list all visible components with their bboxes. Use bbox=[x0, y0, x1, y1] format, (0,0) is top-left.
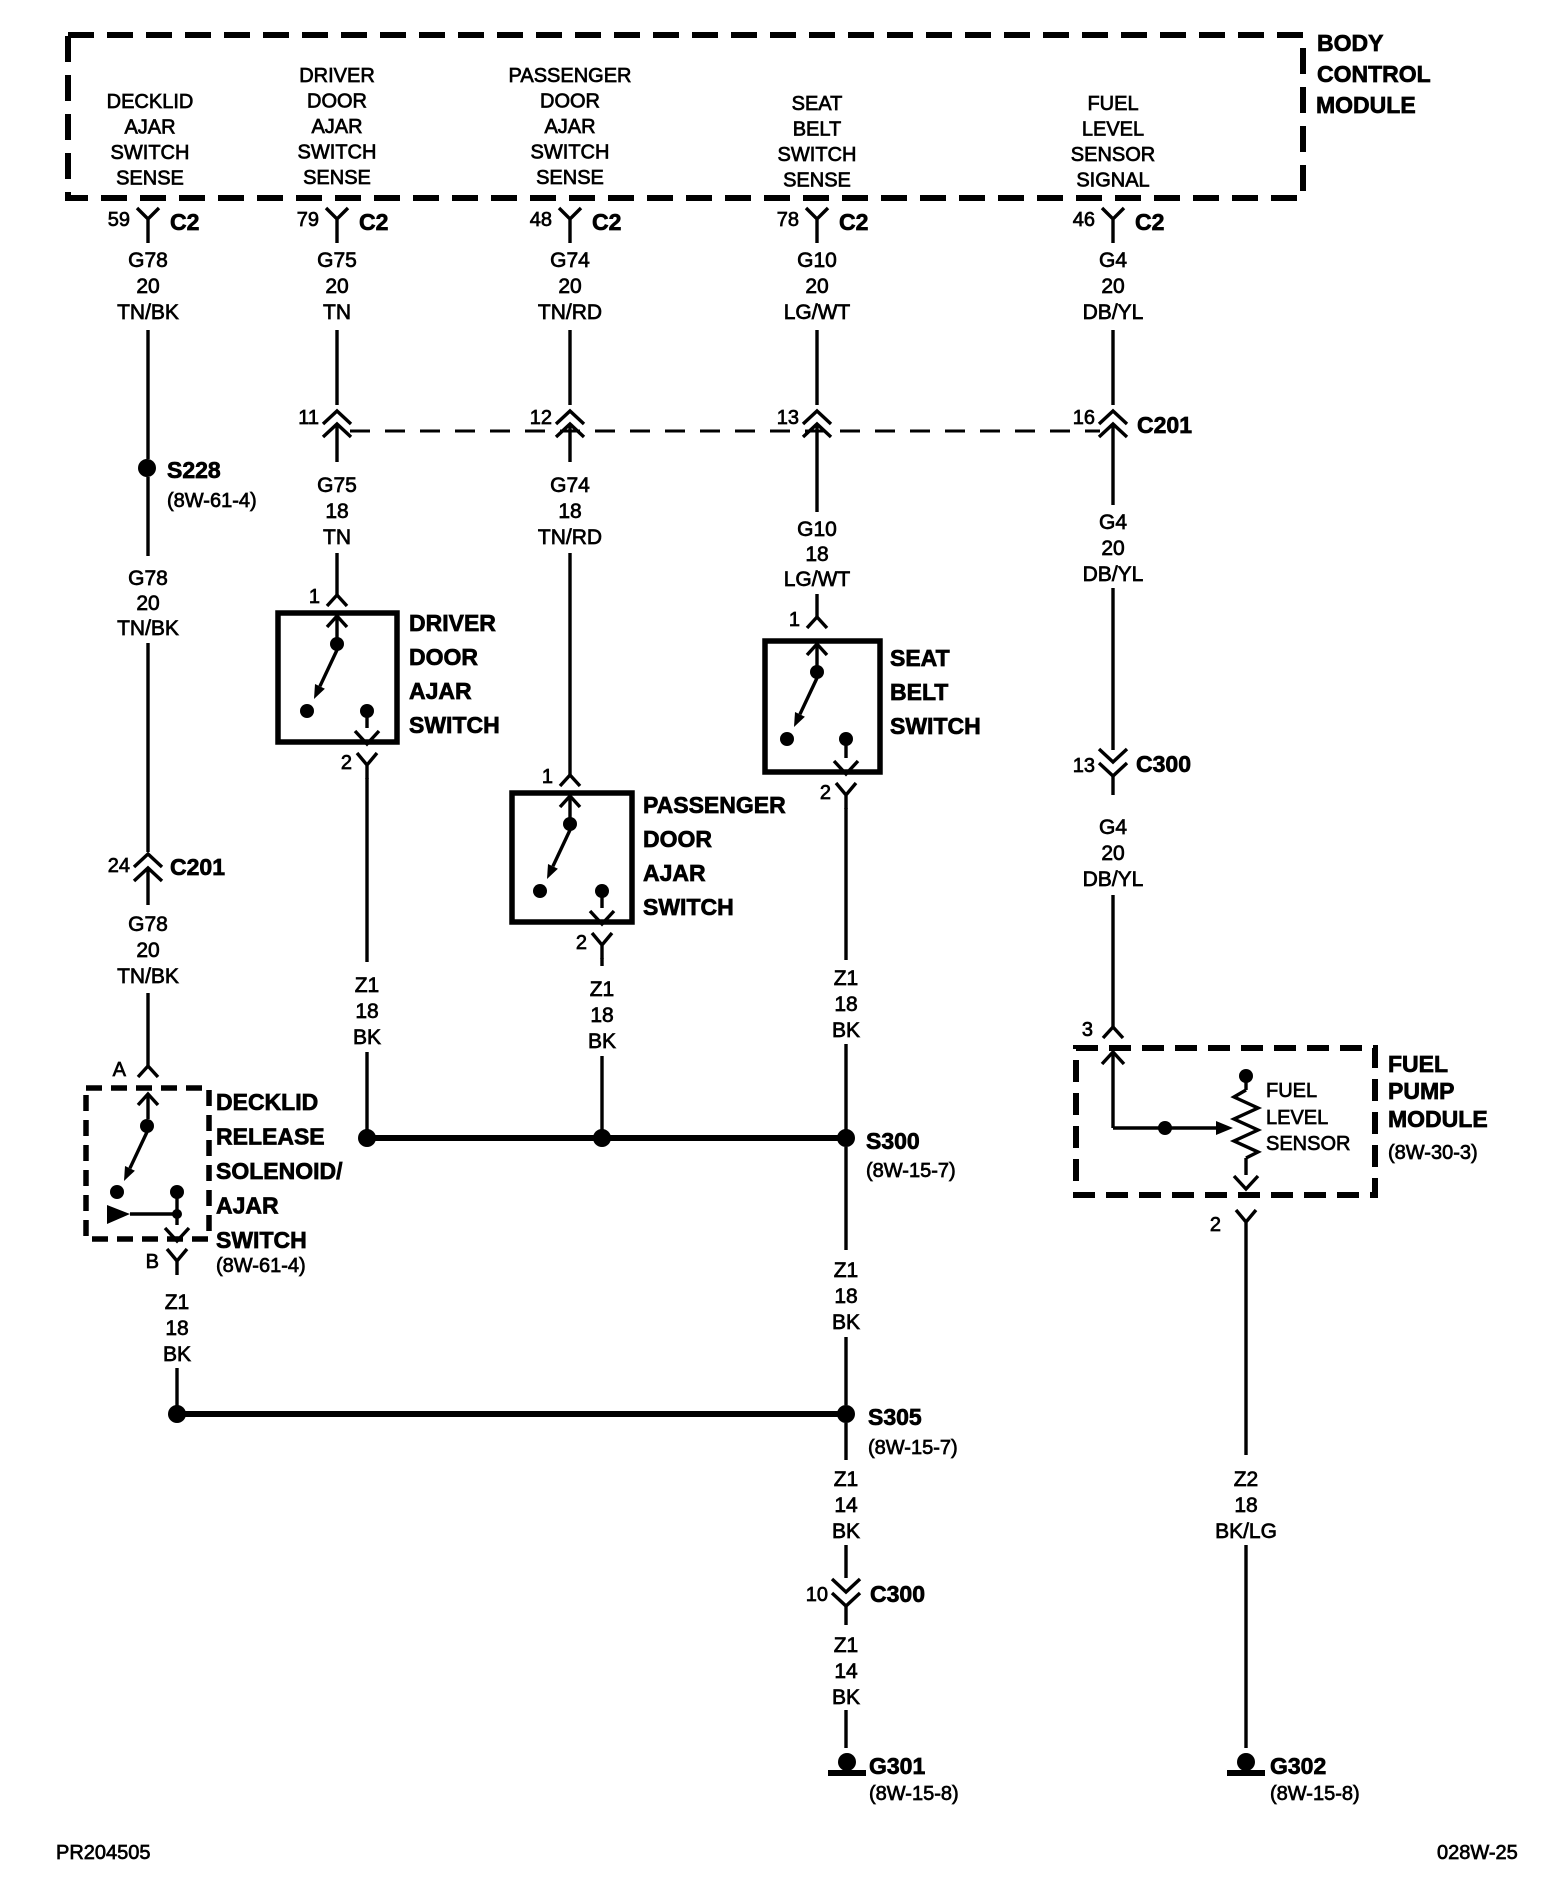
svg-text:SOLENOID/: SOLENOID/ bbox=[216, 1158, 343, 1184]
svg-text:AJAR: AJAR bbox=[124, 117, 175, 139]
module box: DECKLID RELEASE SOLENOID/AJAR SWITCH bbox=[86, 1088, 209, 1239]
svg-text:46: 46 bbox=[1073, 209, 1095, 231]
connector C2 pin 78 bbox=[777, 208, 869, 243]
box name DRIVER bbox=[409, 610, 500, 738]
wire label G4 20 DB/YL bbox=[1083, 249, 1144, 324]
switch box PASSENGER DOOR AJAR SWITCH bbox=[512, 793, 632, 922]
svg-text:18: 18 bbox=[558, 500, 581, 523]
svg-text:TN/BK: TN/BK bbox=[117, 617, 179, 640]
decklid switch pin A bbox=[113, 1059, 158, 1081]
wire S300 to Z1 label bbox=[844, 1147, 847, 1250]
wire label Z1 18 BK (driver) bbox=[353, 974, 381, 1049]
wire label G10 18 LG/WT bbox=[784, 518, 851, 591]
svg-text:G301: G301 bbox=[869, 1753, 925, 1779]
svg-text:(8W-15-7): (8W-15-7) bbox=[868, 1437, 958, 1459]
svg-text:SENSE: SENSE bbox=[783, 170, 851, 192]
svg-text:AJAR: AJAR bbox=[409, 678, 472, 704]
svg-text:BELT: BELT bbox=[793, 119, 842, 141]
svg-text:BK/LG: BK/LG bbox=[1215, 1520, 1277, 1543]
connector C201 pin 11 bbox=[298, 407, 351, 462]
svg-text:2: 2 bbox=[341, 752, 352, 774]
wire label G78 20 TN/BK (3) bbox=[117, 913, 179, 988]
footer text PR204505 bbox=[56, 1842, 151, 1864]
svg-text:G78: G78 bbox=[128, 249, 168, 272]
svg-text:18: 18 bbox=[325, 500, 348, 523]
svg-text:G10: G10 bbox=[797, 249, 837, 272]
wire to C300 pin 10 bbox=[844, 1545, 847, 1578]
wire to fuel pump module pin 3 bbox=[1111, 895, 1114, 1027]
connector C300 pin 13 bbox=[1073, 749, 1191, 795]
pin 2 fork bbox=[341, 752, 377, 779]
svg-text:13: 13 bbox=[1073, 755, 1095, 777]
wire label G78 20 TN/BK bbox=[117, 249, 179, 324]
svg-text:S228: S228 bbox=[167, 457, 221, 483]
switch contacts bbox=[327, 616, 347, 651]
svg-text:BK: BK bbox=[163, 1343, 191, 1366]
svg-text:LG/WT: LG/WT bbox=[784, 301, 851, 324]
svg-text:DB/YL: DB/YL bbox=[1083, 563, 1144, 586]
svg-text:G4: G4 bbox=[1099, 249, 1127, 272]
svg-text:C2: C2 bbox=[1135, 209, 1164, 235]
svg-text:C2: C2 bbox=[839, 209, 868, 235]
module box: FUEL PUMP MODULE bbox=[1076, 1048, 1375, 1195]
wire from label LG/WT to seat belt switch bbox=[815, 594, 818, 617]
svg-text:AJAR: AJAR bbox=[544, 116, 595, 138]
pin 2 fork bbox=[820, 782, 856, 809]
svg-text:79: 79 bbox=[297, 209, 319, 231]
wire label G78 20 TN/BK (2) bbox=[117, 567, 179, 640]
module box: BODY CONTROL MODULE bbox=[68, 35, 1303, 198]
svg-text:PUMP: PUMP bbox=[1388, 1078, 1454, 1104]
svg-text:MODULE: MODULE bbox=[1316, 92, 1416, 118]
svg-text:20: 20 bbox=[136, 939, 159, 962]
wire S305 down bbox=[844, 1423, 847, 1460]
wire label Z1 14 BK (below S305) bbox=[832, 1468, 860, 1543]
svg-text:G78: G78 bbox=[128, 913, 168, 936]
svg-text:10: 10 bbox=[806, 1584, 828, 1606]
svg-text:DOOR: DOOR bbox=[409, 644, 478, 670]
svg-text:SWITCH: SWITCH bbox=[298, 142, 377, 164]
wire label Z1 18 BK (passenger) bbox=[588, 978, 616, 1053]
decklid moving contact bbox=[110, 1185, 124, 1199]
svg-text:1: 1 bbox=[309, 586, 320, 608]
svg-text:2: 2 bbox=[576, 932, 587, 954]
svg-text:DB/YL: DB/YL bbox=[1083, 301, 1144, 324]
wire DB/YL to C300 pin 13 bbox=[1111, 588, 1114, 750]
wire to C201 bbox=[568, 330, 571, 405]
fuel pump module entry wire bbox=[1102, 1052, 1124, 1128]
ground G302 bbox=[1227, 1753, 1360, 1805]
svg-text:028W-25: 028W-25 bbox=[1437, 1842, 1518, 1864]
svg-text:Z1: Z1 bbox=[834, 1468, 859, 1491]
svg-text:24: 24 bbox=[108, 855, 130, 877]
svg-text:DECKLID: DECKLID bbox=[107, 91, 194, 113]
svg-text:G78: G78 bbox=[128, 567, 168, 590]
box name PASSENGER bbox=[643, 792, 786, 920]
wire label Z2 18 BK/LG bbox=[1215, 1468, 1277, 1543]
svg-text:FUEL: FUEL bbox=[1388, 1051, 1448, 1077]
svg-text:G4: G4 bbox=[1099, 511, 1127, 534]
switch contacts bbox=[807, 644, 827, 679]
output contact pin 2 bbox=[834, 732, 858, 774]
svg-text:20: 20 bbox=[1101, 537, 1124, 560]
svg-text:20: 20 bbox=[325, 275, 348, 298]
svg-text:S300: S300 bbox=[866, 1128, 920, 1154]
svg-text:G10: G10 bbox=[797, 518, 837, 541]
svg-text:G75: G75 bbox=[317, 249, 357, 272]
moving contact bbox=[300, 704, 314, 718]
pin 1 bbox=[789, 609, 827, 631]
svg-text:SENSE: SENSE bbox=[116, 168, 184, 190]
connector C300 pin 10 bbox=[806, 1579, 925, 1625]
svg-text:C2: C2 bbox=[592, 209, 621, 235]
splice S300 bbox=[837, 1128, 956, 1182]
svg-text:G74: G74 bbox=[550, 249, 590, 272]
wire to decklid switch pin A bbox=[146, 993, 149, 1066]
svg-text:C300: C300 bbox=[1136, 751, 1191, 777]
svg-text:TN: TN bbox=[323, 526, 351, 549]
pin B fork bbox=[146, 1249, 187, 1275]
fuel pump module pin 3 bbox=[1082, 1019, 1123, 1041]
output contact pin 2 bbox=[355, 704, 379, 744]
connector C2 pin 79 bbox=[297, 208, 389, 243]
wire label Z1 18 BK (decklid) bbox=[163, 1291, 191, 1366]
wire from label TN to driver switch bbox=[335, 553, 338, 595]
svg-text:FUEL: FUEL bbox=[1087, 93, 1138, 115]
wire label G75 20 TN bbox=[317, 249, 357, 324]
svg-text:14: 14 bbox=[834, 1660, 858, 1683]
svg-text:SEAT: SEAT bbox=[890, 645, 950, 671]
svg-text:SWITCH: SWITCH bbox=[111, 142, 190, 164]
svg-text:20: 20 bbox=[558, 275, 581, 298]
wire below S228 bbox=[146, 477, 149, 556]
box name SEAT bbox=[890, 645, 981, 739]
wire decklid to S305 bbox=[175, 1368, 178, 1408]
footer text 028W-25 bbox=[1437, 1842, 1518, 1864]
svg-text:16: 16 bbox=[1073, 407, 1095, 429]
svg-text:DOOR: DOOR bbox=[307, 91, 367, 113]
svg-text:TN/BK: TN/BK bbox=[117, 965, 179, 988]
connector C201 dashed line bbox=[350, 430, 1100, 433]
svg-text:(8W-15-8): (8W-15-8) bbox=[1270, 1783, 1360, 1805]
svg-text:18: 18 bbox=[834, 1285, 857, 1308]
svg-text:(8W-15-8): (8W-15-8) bbox=[869, 1783, 959, 1805]
svg-text:18: 18 bbox=[590, 1004, 613, 1027]
svg-text:(8W-30-3): (8W-30-3) bbox=[1388, 1142, 1478, 1164]
svg-text:SENSE: SENSE bbox=[303, 167, 371, 189]
svg-text:SWITCH: SWITCH bbox=[643, 894, 734, 920]
decklid solenoid plunger bbox=[107, 1205, 182, 1224]
BCM pin label: SEAT BELT SWITCH SENSE bbox=[778, 93, 857, 192]
svg-text:TN/BK: TN/BK bbox=[117, 301, 179, 324]
svg-text:SENSOR: SENSOR bbox=[1266, 1133, 1350, 1155]
connector C201 pin 16 bbox=[1073, 407, 1127, 505]
wire label G4 20 DB/YL (2) bbox=[1083, 511, 1144, 586]
svg-text:18: 18 bbox=[834, 993, 857, 1016]
svg-text:SWITCH: SWITCH bbox=[531, 142, 610, 164]
junction dot decklid branch bbox=[168, 1405, 186, 1423]
svg-text:DECKLID: DECKLID bbox=[216, 1089, 318, 1115]
svg-text:C300: C300 bbox=[870, 1581, 925, 1607]
svg-text:G4: G4 bbox=[1099, 816, 1127, 839]
connector label C201 bbox=[1137, 412, 1192, 438]
wire Z1 below seat belt switch bbox=[844, 808, 847, 960]
svg-text:RELEASE: RELEASE bbox=[216, 1124, 325, 1150]
svg-text:G75: G75 bbox=[317, 474, 357, 497]
svg-text:FUEL: FUEL bbox=[1266, 1080, 1317, 1102]
svg-text:20: 20 bbox=[136, 275, 159, 298]
svg-text:TN/RD: TN/RD bbox=[538, 526, 602, 549]
svg-text:18: 18 bbox=[805, 543, 828, 566]
splice S305 bbox=[837, 1404, 958, 1459]
svg-text:SENSE: SENSE bbox=[536, 167, 604, 189]
splice S228 bbox=[138, 457, 257, 512]
svg-text:Z1: Z1 bbox=[165, 1291, 190, 1314]
svg-text:SWITCH: SWITCH bbox=[890, 713, 981, 739]
wire label Z1 18 BK (seat belt) bbox=[832, 967, 860, 1042]
wire to S305 bbox=[844, 1337, 847, 1405]
svg-text:SENSOR: SENSOR bbox=[1071, 144, 1155, 166]
svg-text:PASSENGER: PASSENGER bbox=[643, 792, 786, 818]
wire to junction bbox=[365, 1052, 368, 1134]
BCM pin label: PASSENGER DOOR AJAR SWITCH SENSE bbox=[509, 65, 632, 189]
wire from label TN/RD to passenger switch bbox=[568, 553, 571, 775]
svg-text:SWITCH: SWITCH bbox=[216, 1227, 307, 1253]
svg-text:2: 2 bbox=[1210, 1214, 1221, 1236]
svg-text:BK: BK bbox=[832, 1520, 860, 1543]
svg-text:PASSENGER: PASSENGER bbox=[509, 65, 632, 87]
svg-text:AJAR: AJAR bbox=[216, 1193, 279, 1219]
wire to C201 bbox=[815, 330, 818, 405]
wire Z1 below driver switch bbox=[365, 778, 368, 962]
svg-text:18: 18 bbox=[1234, 1494, 1257, 1517]
moving contact bbox=[780, 732, 794, 746]
wire label Z1 18 BK (below S300) bbox=[832, 1259, 860, 1334]
wire label G74 20 TN/RD bbox=[538, 249, 602, 324]
BCM pin label: FUEL LEVEL SENSOR SIGNAL bbox=[1071, 93, 1155, 192]
box name DECKLID RELEASE SOLENOID/AJAR SWITCH bbox=[216, 1089, 343, 1277]
svg-text:18: 18 bbox=[355, 1000, 378, 1023]
svg-text:12: 12 bbox=[530, 407, 552, 429]
connector C2 pin 48 bbox=[530, 208, 622, 243]
connector C2 pin 46 bbox=[1073, 208, 1165, 243]
svg-text:BK: BK bbox=[832, 1019, 860, 1042]
svg-text:A: A bbox=[113, 1059, 127, 1081]
connector C2 pin 59 bbox=[108, 208, 200, 243]
svg-text:LEVEL: LEVEL bbox=[1266, 1107, 1328, 1129]
svg-text:SWITCH: SWITCH bbox=[409, 712, 500, 738]
svg-text:B: B bbox=[146, 1251, 159, 1273]
svg-text:18: 18 bbox=[165, 1317, 188, 1340]
wire to G301 bbox=[844, 1710, 847, 1748]
svg-text:BK: BK bbox=[832, 1311, 860, 1334]
wire to G302 bbox=[1244, 1545, 1247, 1748]
svg-text:48: 48 bbox=[530, 209, 552, 231]
svg-text:TN/RD: TN/RD bbox=[538, 301, 602, 324]
svg-text:20: 20 bbox=[1101, 275, 1124, 298]
svg-text:Z1: Z1 bbox=[355, 974, 380, 997]
moving contact bbox=[533, 884, 547, 898]
wire to C201 bbox=[335, 330, 338, 405]
svg-text:Z1: Z1 bbox=[834, 1634, 859, 1657]
svg-text:SEAT: SEAT bbox=[792, 93, 843, 115]
junction dot driver branch bbox=[358, 1129, 376, 1147]
svg-text:C2: C2 bbox=[359, 209, 388, 235]
svg-text:BELT: BELT bbox=[890, 679, 948, 705]
fuel level sensor resistor bbox=[1234, 1069, 1258, 1189]
pin 2 fork bbox=[576, 932, 612, 959]
wire label G4 20 DB/YL (3) bbox=[1083, 816, 1144, 891]
svg-text:DRIVER: DRIVER bbox=[409, 610, 496, 636]
BCM pin label: DECKLID AJAR SWITCH SENSE bbox=[107, 91, 194, 190]
svg-text:MODULE: MODULE bbox=[1388, 1106, 1488, 1132]
svg-text:AJAR: AJAR bbox=[311, 116, 362, 138]
svg-text:1: 1 bbox=[789, 609, 800, 631]
svg-text:BODY: BODY bbox=[1317, 30, 1383, 56]
svg-text:LG/WT: LG/WT bbox=[784, 568, 851, 591]
switch box DRIVER DOOR AJAR SWITCH bbox=[278, 613, 397, 742]
module name FUEL PUMP MODULE bbox=[1388, 1051, 1488, 1164]
decklid switch arm bbox=[124, 1132, 147, 1181]
svg-text:CONTROL: CONTROL bbox=[1317, 61, 1431, 87]
connector C201 pin 24 bbox=[108, 854, 225, 905]
svg-text:11: 11 bbox=[298, 407, 319, 429]
svg-text:BK: BK bbox=[588, 1030, 616, 1053]
wire Z1 below passenger switch bbox=[600, 958, 603, 966]
label FUEL LEVEL SENSOR bbox=[1266, 1080, 1350, 1155]
output contact pin 2 bbox=[590, 884, 614, 924]
svg-text:2: 2 bbox=[820, 782, 831, 804]
svg-text:Z1: Z1 bbox=[834, 1259, 859, 1282]
svg-text:SWITCH: SWITCH bbox=[778, 144, 857, 166]
svg-text:13: 13 bbox=[777, 407, 799, 429]
wire label G74 18 TN/RD bbox=[538, 474, 602, 549]
svg-text:SIGNAL: SIGNAL bbox=[1076, 170, 1149, 192]
wire to junction (passenger) bbox=[600, 1056, 603, 1134]
junction wire to S300 bbox=[367, 1135, 846, 1141]
svg-text:1: 1 bbox=[542, 766, 553, 788]
svg-text:20: 20 bbox=[1101, 842, 1124, 865]
wire label G10 20 LG/WT bbox=[784, 249, 851, 324]
connector C201 pin 13 bbox=[777, 407, 831, 512]
svg-text:PR204505: PR204505 bbox=[56, 1842, 151, 1864]
wire label Z1 14 BK (below C300) bbox=[832, 1634, 860, 1709]
svg-text:Z1: Z1 bbox=[590, 978, 615, 1001]
BCM pin label: DRIVER DOOR AJAR SWITCH SENSE bbox=[298, 65, 377, 189]
svg-text:(8W-61-4): (8W-61-4) bbox=[216, 1255, 306, 1277]
svg-text:G74: G74 bbox=[550, 474, 590, 497]
svg-text:DOOR: DOOR bbox=[540, 91, 600, 113]
svg-text:59: 59 bbox=[108, 209, 130, 231]
wire pin2 down bbox=[1244, 1236, 1247, 1455]
wire to C201 bbox=[1111, 330, 1114, 405]
svg-text:BK: BK bbox=[353, 1026, 381, 1049]
module name: BODY CONTROL MODULE bbox=[1316, 30, 1431, 118]
fuel pump module pin 2 fork bbox=[1210, 1210, 1256, 1236]
ground G301 bbox=[828, 1753, 959, 1805]
decklid switch input contact bbox=[138, 1094, 158, 1133]
svg-text:LEVEL: LEVEL bbox=[1082, 119, 1144, 141]
junction dot passenger branch bbox=[593, 1129, 611, 1147]
wire to C201 pin 24 bbox=[146, 643, 149, 852]
svg-text:DB/YL: DB/YL bbox=[1083, 868, 1144, 891]
svg-text:C2: C2 bbox=[170, 209, 199, 235]
pin 1 bbox=[309, 586, 347, 608]
svg-text:(8W-61-4): (8W-61-4) bbox=[167, 490, 257, 512]
svg-text:DRIVER: DRIVER bbox=[299, 65, 375, 87]
switch box SEAT BELT SWITCH bbox=[765, 641, 880, 772]
svg-text:3: 3 bbox=[1082, 1019, 1093, 1041]
svg-text:AJAR: AJAR bbox=[643, 860, 706, 886]
switch contacts bbox=[560, 796, 580, 831]
svg-text:78: 78 bbox=[777, 209, 799, 231]
wire to S300 bbox=[844, 1044, 847, 1134]
wire G78 20 TN/BK from BCM pin 59 to S228 bbox=[146, 330, 149, 459]
svg-text:G302: G302 bbox=[1270, 1753, 1326, 1779]
decklid output contact pin B bbox=[165, 1185, 189, 1241]
junction wire to S305 bbox=[177, 1411, 846, 1417]
pin 1 bbox=[542, 766, 580, 788]
svg-text:20: 20 bbox=[136, 592, 159, 615]
wire label G75 18 TN bbox=[317, 474, 357, 549]
svg-text:S305: S305 bbox=[868, 1404, 922, 1430]
svg-text:14: 14 bbox=[834, 1494, 858, 1517]
switch arm bbox=[314, 650, 337, 699]
svg-text:C201: C201 bbox=[1137, 412, 1192, 438]
wiper wire to fuel level sensor bbox=[1113, 1121, 1233, 1135]
svg-text:C201: C201 bbox=[170, 854, 225, 880]
svg-text:TN: TN bbox=[323, 301, 351, 324]
connector C201 pin 12 bbox=[530, 407, 584, 462]
svg-text:BK: BK bbox=[832, 1686, 860, 1709]
svg-text:Z2: Z2 bbox=[1234, 1468, 1259, 1491]
svg-text:(8W-15-7): (8W-15-7) bbox=[866, 1160, 956, 1182]
switch arm bbox=[794, 678, 817, 727]
switch arm bbox=[547, 830, 570, 879]
svg-text:Z1: Z1 bbox=[834, 967, 859, 990]
svg-text:20: 20 bbox=[805, 275, 828, 298]
svg-text:DOOR: DOOR bbox=[643, 826, 712, 852]
